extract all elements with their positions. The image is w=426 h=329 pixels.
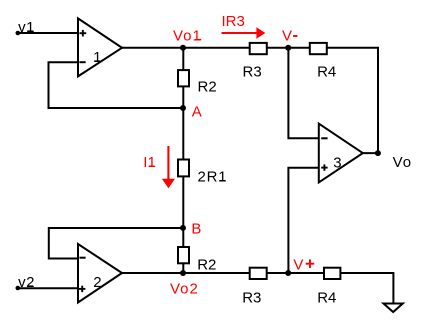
svg-text:2R1: 2R1 bbox=[198, 169, 228, 186]
wire vertical Vo1 through R2, A, 2R1, B, R2 to Vo2 bbox=[182, 48, 184, 273]
svg-text:IR3: IR3 bbox=[222, 13, 245, 30]
svg-text:A: A bbox=[192, 103, 202, 120]
svg-text:Vo1: Vo1 bbox=[173, 27, 202, 44]
resistor R3 (top, horizontal) bbox=[250, 43, 267, 54]
op-amp U2 bbox=[78, 244, 122, 303]
svg-text:R4: R4 bbox=[317, 289, 336, 306]
wire op-amp1 feedback from - input down to node A bbox=[49, 62, 184, 108]
svg-text:V: V bbox=[293, 256, 303, 273]
node Vo2 junction bbox=[180, 270, 186, 276]
resistor 2R1 (vertical) bbox=[178, 160, 189, 177]
svg-text:R3: R3 bbox=[243, 64, 262, 81]
wire v1 to op-amp1 + input bbox=[18, 32, 79, 34]
ground bbox=[384, 304, 403, 313]
svg-text:3: 3 bbox=[333, 154, 341, 171]
current arrow I1 bbox=[162, 146, 175, 188]
resistor R4 (bottom, horizontal) bbox=[324, 268, 340, 279]
svg-text:v1: v1 bbox=[18, 19, 35, 36]
op-amp U3 bbox=[319, 124, 363, 183]
label v1 bbox=[18, 19, 35, 36]
wire node B feedback to op-amp2 - input bbox=[49, 228, 184, 259]
label v2 bbox=[18, 274, 35, 291]
node label Vo1 bbox=[173, 27, 202, 44]
svg-text:R4: R4 bbox=[317, 64, 336, 81]
svg-text:B: B bbox=[191, 220, 201, 237]
svg-text:R2: R2 bbox=[198, 79, 217, 96]
svg-text:R3: R3 bbox=[242, 289, 261, 306]
node V- junction bbox=[285, 45, 291, 51]
node V+ junction bbox=[285, 270, 291, 276]
wire v2 to op-amp2 + input bbox=[18, 287, 79, 289]
svg-text:V: V bbox=[282, 27, 292, 44]
svg-text:Vo: Vo bbox=[393, 154, 413, 171]
resistor R2 (top, vertical) bbox=[178, 70, 189, 86]
wire top row Vo1/R3/V-/R4 to corner down to op-amp3 output bbox=[122, 48, 378, 153]
svg-text:2: 2 bbox=[93, 274, 101, 291]
current label I1 bbox=[143, 154, 156, 171]
svg-text:Vo2: Vo2 bbox=[170, 281, 199, 298]
node Vo1 junction bbox=[180, 45, 186, 51]
wire V- down to op-amp3 - input bbox=[288, 48, 319, 139]
current arrow IR3 bbox=[222, 27, 266, 38]
terminal v1 bbox=[15, 31, 20, 36]
wire V+ up to op-amp3 + input bbox=[288, 168, 319, 273]
resistor R2 (bottom, vertical) bbox=[178, 247, 189, 263]
node A junction bbox=[180, 105, 186, 111]
terminal v2 bbox=[15, 286, 20, 291]
svg-text:I1: I1 bbox=[143, 154, 156, 171]
svg-text:v2: v2 bbox=[18, 274, 35, 291]
resistor R3 (bottom, horizontal) bbox=[250, 268, 267, 279]
node Vo junction (op-amp3 output) bbox=[375, 150, 381, 156]
node B junction bbox=[180, 225, 186, 231]
svg-text:1: 1 bbox=[93, 49, 101, 66]
resistor R4 (top, horizontal) bbox=[310, 43, 327, 54]
svg-text:R2: R2 bbox=[197, 257, 216, 274]
wire bottom row Vo2/R3/V+/R4 to ground bbox=[122, 273, 394, 303]
op-amp U1 bbox=[78, 18, 122, 76]
label 2R1 bbox=[198, 169, 228, 186]
